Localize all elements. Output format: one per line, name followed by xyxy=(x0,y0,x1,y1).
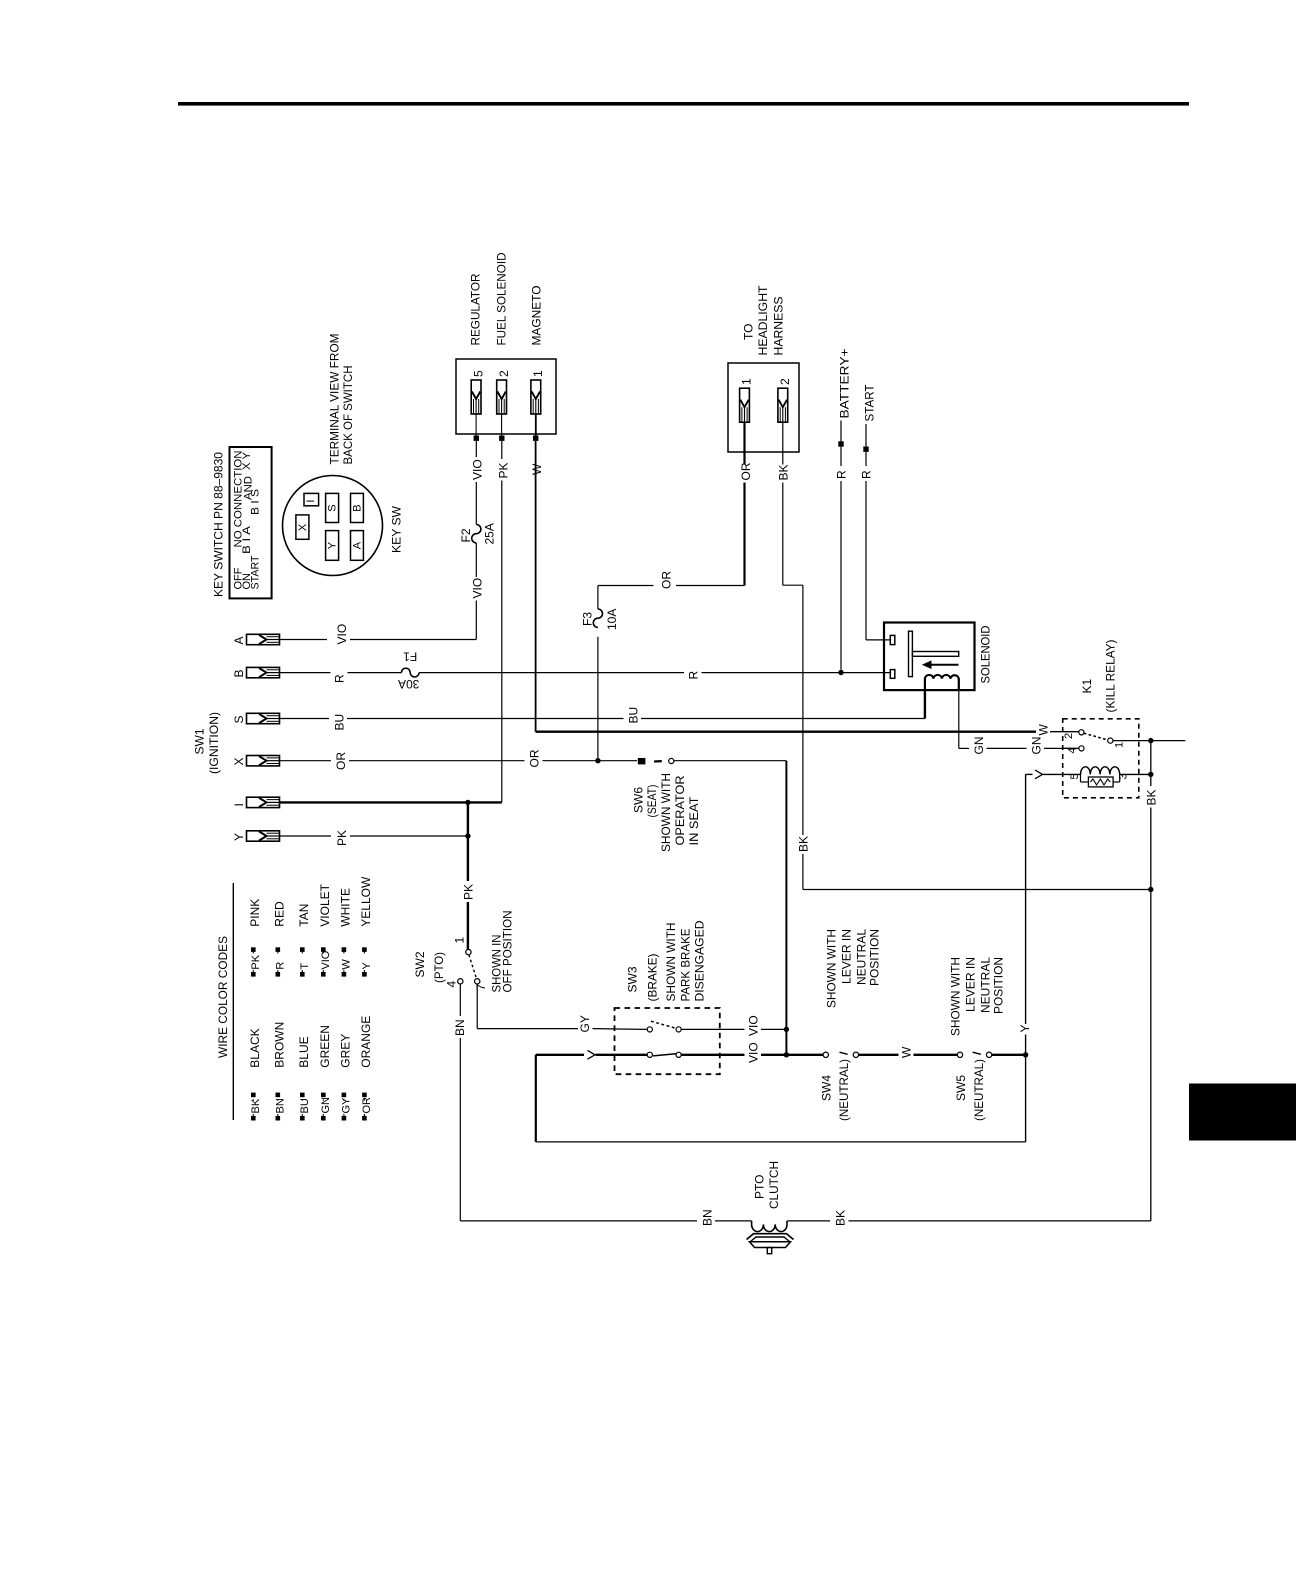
svg-text:VIO: VIO xyxy=(471,578,485,599)
svg-text:A: A xyxy=(232,636,246,644)
svg-text:GN: GN xyxy=(1030,737,1044,755)
junction bus / Y wire xyxy=(1023,1052,1028,1057)
svg-text:1: 1 xyxy=(1114,742,1126,748)
key pin X xyxy=(247,756,280,766)
svg-text:LEVER IN: LEVER IN xyxy=(840,929,854,984)
svg-text:SHOWN WITH: SHOWN WITH xyxy=(949,957,963,1036)
wire R to solenoid lower pin xyxy=(841,672,890,674)
legend entry GY GREY xyxy=(342,1116,347,1121)
svg-text:Y: Y xyxy=(361,962,373,970)
legend entry BK BLACK xyxy=(251,1116,256,1121)
wire stubs from connector pins to edge xyxy=(475,414,477,436)
svg-text:BLACK: BLACK xyxy=(248,1028,262,1067)
legend entry BN BROWN xyxy=(276,1116,281,1121)
pin 1 magneto xyxy=(531,380,541,414)
neutral switch SW4 xyxy=(823,1052,828,1057)
svg-text:F3: F3 xyxy=(581,612,595,626)
svg-text:OR: OR xyxy=(660,571,674,589)
svg-text:PTO: PTO xyxy=(753,1175,767,1199)
wire VIO from SW3 upper contact xyxy=(681,1028,744,1030)
brake switch SW3 dashed box xyxy=(615,1008,720,1074)
svg-text:BN: BN xyxy=(701,1209,715,1226)
svg-text:(KILL RELAY): (KILL RELAY) xyxy=(1104,640,1118,713)
solenoid coil right leg down xyxy=(958,690,960,748)
BATTERY+ wire upper stub xyxy=(840,421,842,442)
solenoid T contact xyxy=(909,631,913,676)
junction battery R / wire B xyxy=(838,670,843,675)
svg-text:GN: GN xyxy=(972,737,986,755)
inline connector on Y wire xyxy=(1035,770,1043,779)
junction BK wires xyxy=(1148,887,1153,892)
connector bullet battery xyxy=(838,441,843,446)
connector bullet W xyxy=(533,436,538,441)
svg-text:VIO: VIO xyxy=(471,459,485,480)
svg-text:SW6: SW6 xyxy=(632,787,646,813)
svg-text:KEY SWITCH PN 88–9830: KEY SWITCH PN 88–9830 xyxy=(211,452,225,597)
pin 2 fuel solenoid xyxy=(497,380,507,414)
legend entry BU BLUE xyxy=(300,1116,305,1121)
svg-text:VIO: VIO xyxy=(747,1015,761,1036)
svg-text:R: R xyxy=(687,671,701,680)
legend entry VIO VIOLET xyxy=(321,972,326,977)
svg-text:10A: 10A xyxy=(605,609,619,630)
legend rule xyxy=(232,883,234,1120)
svg-text:SHOWN WITH: SHOWN WITH xyxy=(659,773,673,852)
wire BK step right xyxy=(783,584,803,586)
wire OR horizontal to fuse F3 xyxy=(676,585,745,587)
solenoid lower pin xyxy=(890,670,895,679)
wire start to solenoid pin xyxy=(866,639,890,641)
bypass loop left vertical xyxy=(535,1055,537,1142)
svg-text:2: 2 xyxy=(1063,733,1075,739)
svg-text:5: 5 xyxy=(472,370,486,377)
neutral switch SW5 xyxy=(957,1052,962,1057)
svg-text:1: 1 xyxy=(453,937,467,944)
svg-text:START: START xyxy=(863,384,877,422)
wire BU from key pin S xyxy=(280,718,329,720)
svg-text:BK: BK xyxy=(797,836,811,852)
svg-text:PK: PK xyxy=(462,884,476,900)
svg-text:K1: K1 xyxy=(1080,678,1094,693)
key pin A xyxy=(247,634,280,644)
junction relay coil / BK wire xyxy=(1148,772,1153,777)
fuse F1 30A xyxy=(401,668,419,677)
svg-text:TERMINAL VIEW FROM: TERMINAL VIEW FROM xyxy=(328,333,342,464)
wire BN horizontal to PTO clutch xyxy=(460,1220,697,1222)
junction OR / brake upper wire xyxy=(784,1027,789,1032)
svg-text:PK: PK xyxy=(250,954,262,969)
svg-text:TO: TO xyxy=(742,324,756,340)
svg-text:SW2: SW2 xyxy=(413,951,427,977)
SW3 upper contact xyxy=(647,1027,652,1032)
wire OR down from seat switch xyxy=(785,761,787,1030)
SW2 blade (off position, dotted) xyxy=(469,955,477,979)
svg-text:RED: RED xyxy=(273,901,287,927)
svg-text:SW1: SW1 xyxy=(193,728,207,754)
svg-text:OR: OR xyxy=(334,752,348,770)
black page tab marker xyxy=(1189,1084,1296,1141)
key pin S xyxy=(247,713,280,723)
svg-text:WIRE COLOR CODES: WIRE COLOR CODES xyxy=(216,936,230,1058)
svg-text:Y: Y xyxy=(1018,1024,1032,1032)
wire F3 down xyxy=(597,586,599,610)
svg-text:BATTERY+: BATTERY+ xyxy=(838,349,852,419)
solenoid arrow xyxy=(929,664,959,666)
svg-text:1: 1 xyxy=(740,378,754,385)
legend entry T TAN xyxy=(300,972,305,977)
svg-text:B: B xyxy=(352,504,364,511)
svg-text:4: 4 xyxy=(1067,747,1079,753)
relay coil xyxy=(1063,767,1149,775)
wire GY from SW2 pin 7 down xyxy=(476,984,478,1029)
svg-text:MAGNETO: MAGNETO xyxy=(530,286,544,346)
svg-text:OR: OR xyxy=(528,749,542,767)
terminal I in key switch xyxy=(304,493,319,505)
wire I thick from key pin I xyxy=(280,801,502,803)
wire R start down segment xyxy=(865,452,867,466)
svg-text:OFF POSITION: OFF POSITION xyxy=(501,911,515,993)
terminal X in key switch xyxy=(296,515,309,539)
svg-text:W: W xyxy=(1037,724,1051,736)
svg-text:NEUTRAL: NEUTRAL xyxy=(855,929,869,985)
svg-text:S: S xyxy=(327,504,339,511)
wire GY horizontal to brake switch xyxy=(477,1028,578,1030)
svg-text:BU: BU xyxy=(333,714,347,731)
svg-text:VIO: VIO xyxy=(335,624,349,645)
svg-text:FUEL SOLENOID: FUEL SOLENOID xyxy=(495,252,509,345)
svg-text:(NEUTRAL): (NEUTRAL) xyxy=(972,1059,986,1121)
pin 1 headlight xyxy=(740,388,750,422)
svg-text:B I S: B I S xyxy=(250,489,262,515)
svg-text:GREY: GREY xyxy=(339,1034,353,1068)
svg-text:BK: BK xyxy=(1145,789,1159,805)
svg-text:R: R xyxy=(860,470,874,479)
svg-text:LEVER IN: LEVER IN xyxy=(964,957,978,1012)
svg-text:KEY SW: KEY SW xyxy=(390,505,404,553)
relay pin1 wire right xyxy=(1113,740,1151,742)
svg-text:7: 7 xyxy=(474,984,488,991)
svg-text:Y: Y xyxy=(327,541,339,549)
svg-text:POSITION: POSITION xyxy=(868,929,882,986)
svg-text:HARNESS: HARNESS xyxy=(772,297,786,356)
wire W horizontal to kill relay xyxy=(536,731,1036,733)
relay suppression resistor xyxy=(1080,774,1082,782)
svg-text:BU: BU xyxy=(299,1098,311,1113)
kill relay K1 dashed box xyxy=(1063,719,1139,798)
svg-text:(IGNITION): (IGNITION) xyxy=(207,712,221,774)
wire OR from headlight pin 1 down xyxy=(743,422,745,465)
PTO switch SW2 pin 4 xyxy=(458,979,463,984)
seat switch SW6 contacts xyxy=(638,758,646,764)
svg-text:X: X xyxy=(297,523,309,531)
PTO switch SW2 pin 7 xyxy=(475,979,480,984)
connector bullet VIO xyxy=(474,436,479,441)
svg-text:SW4: SW4 xyxy=(820,1075,834,1101)
svg-text:IN SEAT: IN SEAT xyxy=(687,796,701,846)
svg-text:W: W xyxy=(530,463,544,475)
bypass loop bottom wire xyxy=(536,1141,1026,1143)
svg-text:SW3: SW3 xyxy=(626,966,640,992)
wire BK from headlight pin 2 down xyxy=(782,422,784,465)
connector box: to headlight harness xyxy=(728,363,799,452)
wire GN to kill relay xyxy=(959,747,969,749)
pin 2 headlight xyxy=(778,388,788,422)
pin 5 regulator xyxy=(471,380,481,414)
page top rule xyxy=(178,102,1189,106)
terminal Y in key switch xyxy=(326,531,339,561)
svg-text:SW5: SW5 xyxy=(954,1075,968,1101)
svg-text:SOLENOID: SOLENOID xyxy=(979,625,993,683)
interlock bus from corner to brake switch xyxy=(536,1054,584,1056)
terminal S in key switch xyxy=(326,493,339,522)
wire BK horizontal to PTO clutch xyxy=(849,1220,1151,1222)
solenoid upper pin xyxy=(890,635,895,644)
svg-text:B I A: B I A xyxy=(241,525,253,554)
terminal A in key switch xyxy=(351,531,364,561)
connector box: regulator / fuel solenoid / magneto xyxy=(456,359,556,434)
svg-text:S: S xyxy=(232,715,246,723)
legend entry W WHITE xyxy=(342,972,347,977)
junction wire I / PTO feed xyxy=(465,800,470,805)
svg-text:VIO: VIO xyxy=(320,950,332,969)
svg-text:30A: 30A xyxy=(398,677,419,691)
svg-text:F2: F2 xyxy=(459,528,473,542)
svg-text:BROWN: BROWN xyxy=(273,1022,287,1068)
svg-text:(PTO): (PTO) xyxy=(432,952,446,983)
junction F3 wire / wire X xyxy=(595,758,600,763)
svg-text:R: R xyxy=(275,962,287,970)
svg-text:R: R xyxy=(333,674,347,683)
svg-text:OPERATOR: OPERATOR xyxy=(673,775,687,845)
terminal B in key switch xyxy=(351,493,364,522)
wire W from magneto pin 1 down xyxy=(535,441,537,732)
wire PK from fuel solenoid pin 2 down xyxy=(501,441,503,459)
svg-text:CLUTCH: CLUTCH xyxy=(767,1161,781,1209)
wire BK horizontal to kill relay net xyxy=(803,889,1151,891)
START wire upper stub xyxy=(865,424,867,447)
svg-text:POSITION: POSITION xyxy=(992,957,1006,1014)
svg-text:SHOWN WITH: SHOWN WITH xyxy=(664,923,678,1002)
svg-text:VIO: VIO xyxy=(747,1042,761,1063)
svg-text:GN: GN xyxy=(320,1097,332,1114)
svg-text:BLUE: BLUE xyxy=(297,1036,311,1067)
svg-text:BK: BK xyxy=(777,464,791,480)
svg-text:PINK: PINK xyxy=(248,899,262,927)
svg-text:PK: PK xyxy=(335,830,349,846)
connector bullet PK xyxy=(499,436,504,441)
svg-text:4: 4 xyxy=(445,981,459,988)
legend entry Y YELLOW xyxy=(362,972,367,977)
svg-text:Y: Y xyxy=(232,833,246,841)
svg-text:25A: 25A xyxy=(483,523,497,544)
relay NC contact pin 4 xyxy=(1063,747,1079,749)
solenoid coil xyxy=(925,675,959,690)
svg-text:(NEUTRAL): (NEUTRAL) xyxy=(837,1059,851,1121)
wire VIO horizontal to key pin A xyxy=(280,639,327,641)
SW3 lower contact xyxy=(647,1052,652,1057)
legend entry PK PINK xyxy=(251,972,256,977)
svg-text:(BRAKE): (BRAKE) xyxy=(646,954,660,1002)
svg-text:YELLOW: YELLOW xyxy=(359,876,373,927)
svg-text:OR: OR xyxy=(739,462,753,480)
svg-text:W: W xyxy=(900,1046,914,1058)
svg-text:BACK OF SWITCH: BACK OF SWITCH xyxy=(341,366,355,465)
legend entry GN GREEN xyxy=(321,1116,326,1121)
wire OR from key pin X xyxy=(280,760,331,762)
svg-text:PK: PK xyxy=(497,462,511,478)
key switch terminal-view circle KEY SW xyxy=(283,476,383,576)
svg-text:START: START xyxy=(250,555,262,589)
svg-text:(SEAT): (SEAT) xyxy=(645,785,659,818)
junction wire Y / PTO feed xyxy=(465,833,470,838)
svg-text:WHITE: WHITE xyxy=(339,888,353,927)
svg-text:I: I xyxy=(305,500,317,503)
starter solenoid box xyxy=(884,623,975,691)
wire BU up to solenoid coil left leg xyxy=(924,690,926,718)
svg-text:BU: BU xyxy=(627,707,641,724)
svg-text:T: T xyxy=(299,963,311,970)
legend entry R RED xyxy=(276,972,281,977)
junction OR / interlock bus xyxy=(784,1052,789,1057)
svg-text:HEADLIGHT: HEADLIGHT xyxy=(756,285,770,356)
wire Y up toward kill relay xyxy=(1025,1035,1027,1053)
wire R from key pin B xyxy=(280,672,331,674)
wire Y horizontal to kill relay coil xyxy=(1026,773,1033,775)
bypass loop right vertical xyxy=(1025,1057,1027,1142)
svg-text:X: X xyxy=(232,757,246,765)
svg-text:B: B xyxy=(232,669,246,677)
svg-text:X Y: X Y xyxy=(241,451,253,470)
svg-text:2: 2 xyxy=(778,378,792,385)
fuse F3 10A xyxy=(593,609,602,627)
PTO clutch chassis ground xyxy=(747,1234,794,1240)
key pin Y xyxy=(247,831,280,841)
svg-text:VIOLET: VIOLET xyxy=(318,883,332,926)
PTO clutch coil xyxy=(752,1221,787,1232)
legend entry OR ORANGE xyxy=(362,1116,367,1121)
svg-text:REGULATOR: REGULATOR xyxy=(469,273,483,345)
svg-text:BK: BK xyxy=(250,1098,262,1113)
junction relay pin1 / BK xyxy=(1148,738,1153,743)
svg-text:DISENGAGED: DISENGAGED xyxy=(693,920,707,1001)
svg-text:GY: GY xyxy=(578,1015,592,1032)
bus through SW3 lower contact xyxy=(681,1054,744,1056)
wire VIO from regulator pin 5 down xyxy=(475,441,477,457)
connector bullet start xyxy=(863,447,868,452)
svg-text:GY: GY xyxy=(341,1097,353,1114)
stub wire to engine kill xyxy=(1151,740,1186,742)
key pin I xyxy=(247,797,280,807)
relay contact pin 1 xyxy=(1108,738,1113,743)
key switch table box xyxy=(230,447,272,598)
wire PK from key pin Y xyxy=(280,835,331,837)
wire BK from relay down xyxy=(1150,741,1152,786)
wire R battery down segment xyxy=(840,447,842,466)
svg-text:W: W xyxy=(341,959,353,970)
svg-text:SHOWN WITH: SHOWN WITH xyxy=(825,929,839,1008)
svg-text:TAN: TAN xyxy=(297,904,311,927)
svg-text:F1: F1 xyxy=(403,650,417,664)
wire BN from SW2 pin 4 down xyxy=(459,984,461,1016)
svg-text:A: A xyxy=(352,541,364,549)
svg-text:2: 2 xyxy=(497,370,511,377)
svg-text:NEUTRAL: NEUTRAL xyxy=(979,957,993,1013)
svg-text:GREEN: GREEN xyxy=(318,1025,332,1068)
svg-text:1: 1 xyxy=(531,370,545,377)
wire PK thick down to PTO switch xyxy=(467,802,469,836)
svg-text:I: I xyxy=(232,803,246,806)
key pin B xyxy=(247,667,280,677)
inline connector on interlock bus xyxy=(588,1050,596,1059)
svg-text:BN: BN xyxy=(275,1098,287,1113)
svg-text:BN: BN xyxy=(453,1019,467,1036)
svg-text:OR: OR xyxy=(361,1097,373,1114)
svg-text:ORANGE: ORANGE xyxy=(359,1016,373,1068)
svg-text:PARK BRAKE: PARK BRAKE xyxy=(679,929,693,1002)
svg-text:R: R xyxy=(835,470,849,479)
wire BK down segment xyxy=(802,585,804,835)
relay blade xyxy=(1084,733,1108,740)
fuse F2 25A xyxy=(472,525,481,543)
svg-text:BK: BK xyxy=(834,1210,848,1226)
